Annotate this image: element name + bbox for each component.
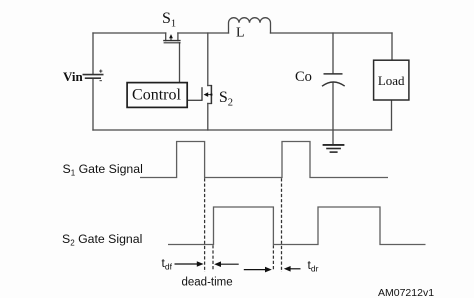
svg-text:Vin: Vin <box>63 69 84 84</box>
svg-text:S2 Gate Signal: S2 Gate Signal <box>62 232 142 248</box>
svg-text:AM07212v1: AM07212v1 <box>378 287 434 298</box>
svg-text:Load: Load <box>378 73 405 88</box>
svg-text:Control: Control <box>132 87 181 104</box>
svg-text:dead-time: dead-time <box>182 276 233 288</box>
svg-text:L: L <box>236 26 245 41</box>
svg-text:S1 Gate Signal: S1 Gate Signal <box>63 162 143 178</box>
svg-text:Co: Co <box>295 69 312 85</box>
